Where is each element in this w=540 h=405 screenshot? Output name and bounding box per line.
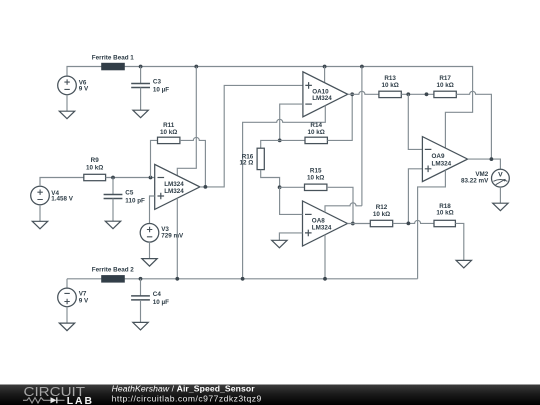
voltmeter VM2 [461, 169, 509, 187]
svg-text:LM324: LM324 [164, 188, 184, 195]
wire top rail V6 to Ferrite Bead 1 [67, 67, 102, 77]
wire op-amp1 V+ supply [177, 67, 196, 176]
svg-text:http://circuitlab.com/c977zdkz: http://circuitlab.com/c977zdkz3tqz9 [112, 393, 262, 403]
node dot OA9 minus branch [406, 92, 410, 96]
node dot OA9 output [490, 157, 494, 161]
resistor R15 10k [280, 168, 353, 224]
svg-text:10 kΩ: 10 kΩ [307, 175, 324, 182]
node dot C5 [111, 176, 115, 180]
svg-text:Ferrite Bead 1: Ferrite Bead 1 [92, 54, 134, 61]
wire OA10 V+ pin [324, 67, 326, 83]
wire R11 left leg [151, 140, 158, 177]
svg-text:10 kΩ: 10 kΩ [373, 211, 390, 218]
svg-text:10 kΩ: 10 kΩ [436, 82, 453, 89]
node dot mid R13 R17 [425, 92, 429, 96]
node dot bead1/C3 [139, 65, 143, 69]
svg-text:LM324: LM324 [312, 95, 332, 102]
wire C4 stem [140, 279, 142, 296]
resistor R13 10k [379, 75, 401, 98]
resistor R17 10k [434, 75, 456, 98]
svg-text:LM324: LM324 [432, 160, 452, 167]
wire R18 to ground [455, 223, 463, 260]
wire op-amp1 + input to V3 [150, 196, 155, 224]
wire OA9 minus input leg [408, 94, 422, 149]
ferrite bead 1 [92, 54, 134, 70]
svg-text:LAB: LAB [67, 396, 94, 405]
node dot rail op-amp1 V- [175, 277, 179, 281]
wire OA8 plus input to ground [279, 233, 302, 240]
wire R12 to R18 with hop [393, 220, 434, 223]
ferrite bead 2 [92, 266, 134, 282]
ground at OA8 plus input [272, 240, 287, 248]
wire VM2 to ground [499, 187, 501, 203]
svg-text:R9: R9 [91, 157, 100, 164]
wire V7 stem to rail [66, 279, 68, 288]
wire R11 right with hop over supply [180, 137, 206, 187]
node dot rail / OA10 V+ [323, 65, 327, 69]
svg-text:12 Ω: 12 Ω [239, 160, 253, 167]
wire op-amp1 output to OA10 + input [200, 85, 303, 186]
wire top rail bead1 to top-right corner down to OA9 V+ [124, 67, 472, 148]
wire V3 to ground [149, 242, 151, 259]
svg-text:C5: C5 [125, 190, 134, 197]
op-amp OA10 LM324 [303, 72, 348, 117]
resistor R9 10k [84, 157, 106, 181]
svg-text:OA9: OA9 [432, 153, 445, 160]
node dot rail C4 [139, 277, 143, 281]
wire R9 to op-amp1 inverting input [106, 177, 155, 179]
resistor R18 10k [434, 203, 455, 227]
svg-text:C3: C3 [153, 79, 162, 86]
ground below C4 [133, 322, 148, 330]
node dot rail / op-amp1 V+ [194, 65, 198, 69]
svg-text:10 µF: 10 µF [153, 299, 169, 306]
voltage source V7 9V [58, 288, 89, 307]
wire C5 stem [112, 178, 114, 195]
wire OA10 V- with hop [243, 106, 326, 279]
node dot rail / OA8 V+ [360, 65, 364, 69]
op-amp OA9 LM324 [422, 137, 467, 182]
capacitor C4 10uF [131, 291, 169, 306]
capacitor C5 110pF [104, 190, 145, 205]
op-amp OA8 LM324 [303, 201, 348, 246]
wire V4 to ground [39, 205, 41, 222]
svg-text:10 kΩ: 10 kΩ [86, 165, 103, 172]
ground below V7 [59, 323, 74, 331]
voltage source V6 9V [58, 76, 89, 95]
wire V7 to ground [66, 307, 68, 323]
svg-text:10 kΩ: 10 kΩ [381, 82, 398, 89]
wire OA8 minus input leg [280, 187, 303, 214]
resistor R11 10k [158, 122, 180, 144]
svg-text:V: V [498, 172, 503, 179]
svg-text:729 mV: 729 mV [161, 233, 184, 240]
node dot OA8 output / R15 [351, 222, 355, 226]
wire C3 stem [140, 67, 142, 84]
wire OA8 V+ vertical riser [361, 67, 363, 206]
wire C4 to ground [140, 300, 142, 323]
ground below V6 [59, 111, 74, 119]
node dot R16 top / R14 left [278, 139, 282, 143]
svg-text:1.458 V: 1.458 V [51, 196, 74, 203]
svg-text:10 kΩ: 10 kΩ [308, 129, 325, 136]
svg-text:Ferrite Bead 2: Ferrite Bead 2 [92, 266, 134, 273]
svg-text:10 kΩ: 10 kΩ [436, 210, 453, 217]
voltage source V4 1.458V [31, 186, 74, 205]
resistor R16 12ohm vertical [239, 140, 279, 187]
op-amp U1 LM324 [155, 164, 200, 209]
node dot R16 bottom / R15 left [278, 185, 282, 189]
ground below R18 [456, 260, 471, 268]
node dot R12 / OA9 plus [407, 222, 411, 226]
node dot R11 left [149, 176, 153, 180]
svg-text:LM324: LM324 [312, 224, 332, 231]
svg-text:9 V: 9 V [79, 297, 89, 304]
capacitor C3 10uF [131, 79, 169, 94]
svg-text:C4: C4 [153, 291, 162, 298]
ground below C5 [105, 221, 120, 229]
wire R17 right with hop to output node [456, 91, 491, 159]
resistor R12 10k [370, 204, 392, 227]
footer title text [112, 384, 262, 404]
ground below VM2 [493, 203, 508, 211]
svg-text:9 V: 9 V [79, 86, 89, 93]
wire bottom rail [67, 278, 418, 280]
svg-text:10 kΩ: 10 kΩ [160, 129, 177, 136]
svg-text:HeathKershaw / Air_Speed_Senso: HeathKershaw / Air_Speed_Sensor [112, 384, 256, 394]
wire OA9 output to VM2 [468, 159, 501, 169]
wire OA9 plus input leg [408, 169, 422, 224]
wire OA9 V- to bottom rail [418, 170, 446, 279]
wire OA8 output to R12 [347, 223, 370, 225]
ground below C3 [133, 110, 148, 118]
wire R13 to R17 [401, 93, 434, 95]
wire V6 to ground [66, 95, 68, 112]
logo resistor zigzag and diode [23, 397, 65, 403]
wire OA8 V- to bottom rail [324, 235, 326, 279]
ground below V3 [142, 259, 157, 267]
wire C5 to ground [112, 199, 114, 222]
node dot OA10 output / R14 [350, 92, 354, 96]
node dot rail OA8 V- [323, 277, 327, 281]
node dot op-amp1 output [204, 185, 208, 189]
svg-text:10 µF: 10 µF [153, 87, 169, 94]
wire OA8 V+ with hop [325, 203, 362, 212]
wire C3 to ground [140, 88, 142, 111]
ground below V4 [32, 221, 47, 229]
resistor R14 10k [280, 94, 353, 143]
svg-text:OA8: OA8 [312, 217, 325, 224]
svg-text:83.22 mV: 83.22 mV [461, 178, 489, 185]
CircuitLab logo wordmark [24, 384, 94, 405]
footer bar [0, 385, 540, 405]
node dot rail OA10 V- [241, 277, 245, 281]
wire OA10 output to R13 with hop [348, 91, 379, 94]
wire OA10 inverting input leg [280, 104, 303, 140]
voltage source V3 729mV [140, 224, 184, 243]
wire V4 to R9 [40, 178, 84, 187]
svg-text:110 pF: 110 pF [125, 198, 145, 205]
wire op-amp1 V- to bottom rail [176, 198, 178, 279]
